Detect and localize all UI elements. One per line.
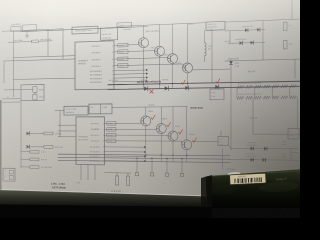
resistor ladder2 R317	[263, 96, 270, 99]
wire Q301 collector	[143, 25, 145, 37]
table surface band below paper	[0, 189, 212, 208]
wire right drop2	[294, 59, 296, 78]
wire resistor row	[8, 41, 32, 44]
wire left bus low	[59, 111, 61, 137]
wire net 1k5	[225, 59, 301, 61]
transistor Q302	[155, 46, 165, 56]
resistor R306	[33, 87, 37, 93]
resistor ladder1 R316	[263, 85, 270, 88]
wire drop x167	[166, 158, 168, 173]
wire U301 p4	[114, 64, 183, 66]
wire low bus 2	[58, 157, 230, 159]
wire q3l jog	[167, 134, 169, 136]
wire drop A	[47, 29, 49, 56]
capacitor C702	[30, 166, 39, 169]
transistor Q304	[183, 63, 193, 73]
wire row C1	[21, 151, 30, 153]
junction lowbus x167	[166, 158, 167, 159]
wire right drop1	[262, 21, 264, 60]
diode D714	[263, 158, 266, 162]
PCB top rim highlight	[212, 171, 266, 174]
node CH1-B	[118, 43, 128, 47]
diode D304	[245, 28, 248, 32]
wire ladder right	[289, 86, 291, 97]
shadow left of PCB	[201, 175, 212, 208]
diode D305	[257, 28, 260, 32]
resistor R304	[284, 22, 288, 31]
wire lower rail	[150, 106, 188, 108]
wire bottom link	[105, 172, 132, 174]
wire LED feed	[20, 101, 22, 168]
resistor ladder2 R315	[255, 96, 262, 99]
junction lowbus x182	[181, 158, 182, 159]
wire Q308 emitter	[172, 141, 174, 162]
mark red check Q1L	[151, 115, 155, 119]
wire top-left bus	[2, 29, 63, 32]
wire U303 to U301 b	[108, 39, 110, 42]
mark red check Q3L	[179, 130, 183, 134]
wire low bus 3	[58, 160, 230, 162]
resistor R712	[127, 176, 130, 185]
resistor R301	[32, 40, 39, 43]
wire ladder left	[236, 87, 238, 98]
wire U304 left drop	[204, 30, 206, 42]
resistor ladder2 R313	[246, 96, 253, 99]
wire U306 out	[112, 106, 150, 108]
wire MA26 up	[230, 60, 232, 61]
rectifier U304 box	[206, 21, 225, 30]
wire U305 bottom pin3	[94, 165, 96, 180]
junction Q308 bus	[172, 155, 173, 156]
wire ladder mid1	[254, 87, 256, 98]
arrow gnd2	[146, 72, 148, 74]
wire left margin	[3, 61, 5, 83]
wire U305 p2	[105, 128, 157, 130]
wire br row1	[231, 147, 298, 149]
wire U305 bottom pin2	[87, 165, 89, 180]
junction Q306 bus	[145, 154, 146, 155]
wire U305 in2	[58, 130, 76, 132]
wire U305 snd1	[105, 146, 145, 148]
barcode label	[230, 173, 266, 185]
resistor ladder2 R311	[237, 96, 244, 99]
mixer U306 box	[89, 104, 112, 114]
junction Q301 bus	[143, 83, 144, 84]
wire low bus 1	[58, 154, 230, 156]
arrow snd1	[144, 146, 146, 148]
overexposure veil top	[0, 0, 300, 62]
wire led2	[21, 27, 148, 32]
wire resistor row cont	[39, 40, 53, 43]
wire net W3	[14, 78, 76, 79]
wire U301 gnd1	[114, 69, 146, 72]
wire drop x137	[136, 158, 138, 172]
inductor L306	[205, 43, 207, 56]
wire U304 drop	[211, 30, 213, 83]
transistor Q308	[168, 131, 178, 141]
warm tone veil	[0, 0, 306, 197]
wire p2 jog	[155, 50, 157, 53]
svg-text:8A/B7 F: 8A/B7 F	[276, 177, 287, 182]
resistor ladder1 R310	[237, 85, 244, 88]
resistor ladder1 R314	[255, 85, 262, 88]
wire ladder mid2	[271, 86, 273, 97]
junction Q302 bus	[159, 83, 160, 84]
wire drop to row3	[252, 98, 254, 134]
mark red check Q4L	[193, 138, 197, 142]
arrow snd3	[144, 155, 146, 157]
junction Q307 bus	[161, 154, 162, 155]
resistor R711	[116, 176, 119, 185]
wire Q301 emitter	[143, 48, 145, 89]
node pad x152	[150, 173, 153, 176]
op-amp U305 outline	[76, 117, 105, 165]
wire Q302 collector	[159, 25, 161, 47]
resistor ladder2 R319	[272, 96, 279, 99]
resistor ladder2 R323	[290, 96, 297, 99]
arrow gnd1	[146, 69, 148, 71]
transistor Q309	[182, 140, 192, 150]
wire q1l jog	[140, 122, 142, 123]
wire Q302 emitter	[159, 56, 161, 88]
wire top bus right	[118, 23, 207, 27]
wire right margin	[291, 0, 293, 19]
filter FL301 box	[288, 128, 299, 139]
node CH4-B	[118, 64, 128, 68]
resistor R702	[44, 146, 53, 149]
mark red check bus1	[181, 80, 185, 84]
node CH4B2	[107, 128, 116, 132]
wire U301 p2	[114, 51, 155, 52]
wire p4 jog	[183, 64, 185, 68]
diode D303 on bus	[185, 86, 188, 90]
connector J701 pin b	[10, 175, 14, 179]
diode D308 MA26	[229, 61, 233, 65]
wire br tail	[291, 152, 298, 154]
wire osc stub	[26, 31, 28, 36]
wire p1 jog	[139, 43, 141, 45]
diode D302 on bus	[165, 86, 169, 90]
resistor ladder1 R320	[281, 85, 288, 88]
node CH2-B	[118, 50, 128, 54]
wire drop B	[62, 29, 64, 60]
node matchbox U307	[210, 89, 224, 100]
wire U301 p1	[114, 44, 139, 47]
diode D306	[240, 41, 243, 45]
wire Q309 collector	[186, 107, 188, 140]
wire br left	[222, 149, 224, 169]
mark red X1	[150, 90, 153, 93]
ground G1	[25, 36, 28, 38]
wire rn stub	[34, 92, 36, 94]
filter X302 box	[64, 106, 88, 115]
wire Q304 out	[193, 68, 231, 71]
wire U305 bottom pin1	[80, 165, 82, 180]
resistor R305	[284, 40, 288, 49]
connector J701	[3, 168, 15, 181]
wire res drop2	[127, 173, 129, 176]
diode D304b on bus	[215, 85, 218, 89]
wire U305 p3	[105, 134, 169, 136]
wire mid drop	[230, 65, 232, 151]
resistor ladder1 R322	[290, 85, 297, 88]
capacitor C701	[30, 150, 39, 153]
wire U301 gnd4	[114, 80, 146, 83]
node pad x182	[180, 173, 183, 176]
wire U305 snd3	[105, 155, 145, 157]
arrow gnd3	[146, 76, 148, 78]
wire right col	[297, 97, 299, 128]
wire U303 to U301 a	[103, 39, 105, 42]
arrow snd4	[144, 160, 146, 162]
wire U305 p1	[105, 122, 141, 124]
node CH3-B	[118, 57, 128, 61]
wire row3	[253, 133, 301, 135]
transistor Q306	[141, 116, 151, 126]
wire Q304 collector	[187, 23, 189, 62]
diode D712	[264, 147, 267, 151]
divider U306	[100, 104, 102, 114]
wire speaker bus A	[108, 81, 301, 85]
wire U305 in3	[58, 136, 76, 138]
wire diode row1	[225, 29, 265, 31]
wire chain to box	[192, 141, 218, 143]
node pad x167	[165, 173, 168, 176]
junction lowbus x152	[151, 158, 152, 159]
wire Q304 emitter	[187, 73, 189, 88]
diode D301 on bus	[144, 86, 148, 90]
wire br row2	[229, 158, 298, 161]
wire led1 out	[30, 132, 44, 134]
paper bottom edge highlight	[0, 189, 208, 196]
wire speaker bus B	[108, 86, 301, 89]
wire U305 p4	[105, 140, 182, 142]
wire q4l jog	[181, 141, 183, 144]
logic U302 box	[72, 26, 98, 34]
wire U301 p3	[114, 58, 168, 60]
node CH4B4	[107, 139, 116, 143]
oscillator X301 box	[23, 25, 37, 32]
wire diode row2	[228, 42, 265, 43]
transistor Q301	[139, 38, 149, 48]
capacitor C304 box	[11, 26, 21, 32]
junction lowbus x137	[136, 157, 137, 158]
connector J701 pin a	[10, 170, 14, 174]
wire K301 top	[220, 131, 222, 136]
wire led1	[21, 27, 134, 32]
resistor ladder1 R318	[272, 85, 279, 88]
wire net W2	[4, 59, 75, 61]
wire U305 in1	[58, 124, 76, 126]
wire to xtal	[55, 110, 64, 112]
resistor ladder1 R312	[246, 85, 253, 88]
mark red check Q2L	[167, 123, 171, 127]
paper sheet	[0, 0, 306, 197]
PCB green sheen	[259, 181, 299, 193]
wire topright bus	[225, 19, 301, 22]
wire 0V b	[2, 101, 20, 103]
capacitor C310	[33, 94, 37, 100]
arrow gnd4	[146, 80, 148, 82]
wire X302 link	[88, 109, 89, 111]
wire Q307 emitter	[160, 134, 162, 162]
node pad x137	[135, 173, 138, 176]
wire Q307 collector	[160, 107, 162, 124]
wire Q308 collector	[172, 107, 174, 131]
wire drop x182	[181, 159, 183, 174]
junction Q303 bus	[172, 83, 173, 84]
wire 0V a	[2, 98, 20, 100]
paper left edge shadow	[0, 100, 2, 190]
node CH4B1	[107, 122, 116, 126]
wire Q303 collector	[172, 24, 174, 54]
wire led2 out	[30, 146, 44, 148]
wire drop x152	[151, 158, 153, 173]
transistor Q303	[168, 54, 178, 64]
op-amp U301 outline	[75, 41, 114, 90]
wire p3 jog	[168, 58, 170, 59]
wire rn left	[4, 88, 33, 90]
wire U305 snd2	[105, 151, 145, 153]
node CHB1-4 box	[117, 22, 132, 27]
relay K301 box	[218, 136, 229, 145]
wire Q309 emitter	[186, 150, 188, 162]
diode D711	[251, 147, 254, 151]
LED D702	[27, 145, 30, 149]
wire L306 down	[204, 56, 206, 62]
wire box to row2	[229, 31, 231, 44]
wire Q306 collector	[145, 107, 147, 116]
resistor ladder2 R321	[281, 96, 288, 99]
wire U301 gnd3	[114, 76, 146, 79]
PCB device edge bottom-right	[206, 169, 302, 208]
resistor network RN301 box	[21, 84, 44, 100]
wire br diag1	[229, 145, 232, 148]
wire Q303 emitter	[172, 64, 174, 89]
resistor R701	[44, 132, 53, 135]
resistor R703	[30, 158, 39, 161]
wire net W1	[14, 56, 76, 58]
wire res drop1	[116, 173, 118, 176]
black bottom	[0, 205, 212, 219]
wire U305 snd4	[105, 160, 145, 162]
node CH4B3	[107, 133, 116, 137]
wire Q306 emitter	[145, 126, 147, 162]
wire row C2	[21, 166, 30, 168]
LED D701	[27, 132, 30, 136]
junction Q309 bus	[186, 155, 187, 156]
transistor Q307	[156, 124, 166, 134]
wire br right	[290, 149, 292, 160]
regulator U303 box	[101, 28, 118, 41]
mark red check bus2	[216, 79, 220, 83]
diode D307	[251, 41, 254, 45]
arrow snd2	[144, 151, 146, 153]
wire row R2	[21, 158, 30, 160]
junction Q304 bus	[187, 83, 188, 84]
wire U301 gnd2	[114, 73, 146, 76]
diode D713	[251, 158, 254, 162]
wire left bus vertical	[13, 31, 15, 97]
